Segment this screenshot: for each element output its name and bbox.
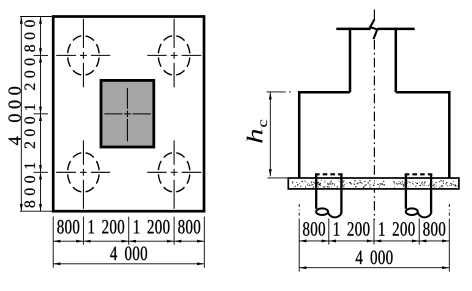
elevation centerline (dash-dot) — [373, 40, 375, 220]
elevation bottom dim extension line — [373, 219, 375, 245]
plan bottom dim text 1 200 — [89, 220, 124, 234]
elevation bottom dim extension line — [448, 219, 450, 245]
column top break line — [336, 28, 414, 31]
elevation bottom chain dimension line — [299, 240, 449, 242]
pile cap right side (elevation) — [448, 92, 451, 178]
plan bottom overall dimension line (4 000) — [53, 262, 204, 265]
left dim text 1 200 — [24, 59, 35, 110]
plan bottom chain dimension line — [53, 240, 204, 242]
elevation centerline (above break) — [373, 10, 375, 21]
plan bottom chain arrows — [53, 240, 204, 243]
left dim tick extension — [34, 113, 49, 115]
break symbol (zigzag) — [370, 20, 377, 40]
pile cap top (elevation) — [298, 91, 451, 94]
column right side (elevation) — [395, 28, 398, 93]
pile 2 (elevation) with break squiggle — [406, 174, 431, 217]
column left side (elevation) — [349, 28, 352, 93]
elevation bottom overall dim text 4 000 — [356, 250, 393, 264]
pile P4 (plan, dashed ellipse) — [158, 153, 190, 192]
elevation cap-edge stub right (dash-dot) — [448, 204, 450, 218]
plan bottom outer extension right — [203, 245, 205, 268]
left inner dimension arrows — [39, 17, 42, 212]
pile P3 centerlines — [56, 140, 110, 208]
column (plan, grey rectangle) — [101, 80, 154, 147]
pile 2 embedded head (dashed) — [405, 173, 433, 175]
h_c dimension line — [269, 92, 272, 176]
elevation bottom dim text 800 — [303, 222, 325, 236]
left inner dimension line — [40, 17, 42, 212]
plan bottom outer extension left — [52, 245, 54, 268]
left dim text 800 — [24, 176, 35, 207]
bedding strip (cushion layer) under cap — [288, 178, 459, 189]
plan bottom dim text 1 200 — [134, 220, 169, 234]
elevation bottom dim extension line — [298, 219, 300, 245]
left overall dimension line (4 000) — [20, 17, 23, 212]
elevation bottom overall dimension line (4 000) — [299, 266, 449, 269]
elevation bottom dim extension line — [418, 219, 420, 245]
pile cap plan outline — [53, 17, 204, 212]
elevation bottom dim extension line — [328, 219, 330, 245]
h_c label — [247, 120, 267, 143]
pile P3 (plan, dashed ellipse) — [68, 153, 100, 192]
left overall dim text 4 000 — [8, 87, 20, 145]
left dim tick extension — [34, 54, 49, 56]
pile P4 centerlines — [147, 140, 201, 208]
plan bottom overall dim text 4 000 — [110, 246, 147, 260]
pile P2 (plan, dashed ellipse) — [158, 36, 190, 75]
left dim text 800 — [24, 20, 35, 51]
left dim extension line (bottom) — [20, 210, 52, 212]
plan bottom dim extension line — [82, 217, 84, 245]
left dim tick extension — [34, 171, 49, 173]
pile 1 (elevation) with break squiggle — [316, 174, 341, 217]
plan bottom dim extension line — [52, 217, 54, 245]
plan bottom dim extension line — [128, 217, 130, 245]
elevation cap-edge stub left (dash-dot) — [298, 204, 300, 218]
plan bottom dim extension line — [203, 217, 205, 245]
h_c extension line top (dash-dot) — [267, 91, 292, 93]
plan bottom dim text 800 — [57, 220, 79, 234]
plan bottom dim extension line — [173, 217, 175, 245]
elevation bottom outer extension right — [448, 245, 450, 272]
elevation bottom dim text 800 — [423, 222, 445, 236]
column centerlines (plan) — [104, 88, 150, 141]
left dim extension line (top) — [20, 16, 52, 18]
pile cap left side (elevation) — [298, 92, 301, 178]
pile P1 (plan, dashed ellipse) — [68, 36, 100, 75]
pile 1 embedded head (dashed) — [315, 173, 343, 175]
elevation bottom dim text 1 200 — [379, 222, 414, 236]
elevation bottom dim text 1 200 — [334, 222, 369, 236]
plan bottom dim text 800 — [178, 220, 200, 234]
pile P1 centerlines — [56, 19, 110, 88]
h_c extension line bottom — [268, 177, 289, 179]
elevation bottom chain arrows — [299, 239, 449, 242]
left dim text 1 200 — [24, 117, 35, 168]
pile P2 centerlines — [147, 19, 201, 88]
elevation bottom outer extension left — [298, 245, 300, 272]
